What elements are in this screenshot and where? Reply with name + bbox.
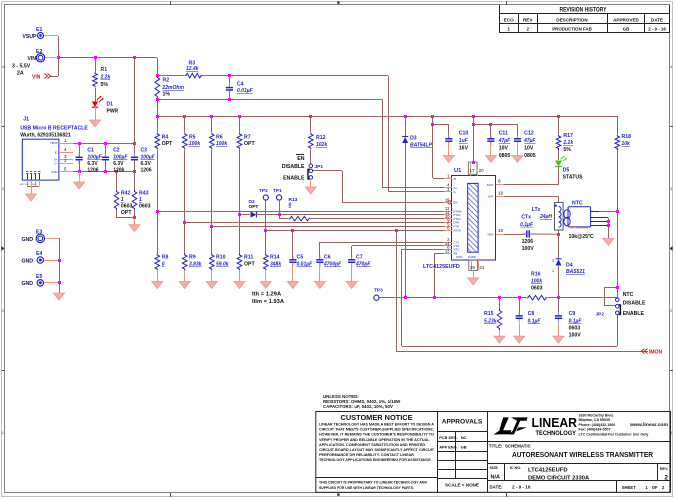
svg-text:2.2k: 2.2k xyxy=(562,140,573,146)
svg-text:E3: E3 xyxy=(36,229,42,235)
svg-text:ENABLE: ENABLE xyxy=(283,176,305,182)
svg-text:3: 3 xyxy=(2,187,4,191)
svg-text:VIN: VIN xyxy=(27,56,36,62)
svg-text:Milpitas, CA 95035: Milpitas, CA 95035 xyxy=(579,418,610,422)
svg-text:NTC: NTC xyxy=(623,292,634,298)
svg-text:R2: R2 xyxy=(163,78,170,84)
svg-text:16V: 16V xyxy=(459,146,469,152)
svg-text:GND: GND xyxy=(51,170,57,174)
svg-text:PWR: PWR xyxy=(107,109,119,115)
svg-text:DISABLE: DISABLE xyxy=(623,301,646,307)
svg-text:R10: R10 xyxy=(216,255,226,261)
svg-text:47µF: 47µF xyxy=(498,138,511,144)
svg-text:OF: OF xyxy=(652,485,658,490)
svg-text:NTC connected: NTC connected xyxy=(570,225,589,229)
svg-text:OPT: OPT xyxy=(244,141,255,147)
svg-text:1: 1 xyxy=(64,138,67,143)
svg-text:SCHEMATIC: SCHEMATIC xyxy=(505,443,532,448)
svg-text:GND GND ~ GND: GND GND ~ GND xyxy=(19,184,37,186)
svg-text:4: 4 xyxy=(64,147,67,152)
svg-text:1: 1 xyxy=(552,269,554,273)
svg-text:C7: C7 xyxy=(356,255,363,261)
svg-text:DAD: DAD xyxy=(488,232,494,236)
svg-text:R15: R15 xyxy=(484,311,494,317)
svg-text:18: 18 xyxy=(498,228,504,233)
svg-text:100µF: 100µF xyxy=(87,154,102,160)
svg-text:2: 2 xyxy=(2,309,4,313)
svg-text:Fax: (408)434-0507: Fax: (408)434-0507 xyxy=(579,428,611,432)
svg-text:GB: GB xyxy=(461,444,467,449)
svg-text:IMON: IMON xyxy=(454,229,461,233)
svg-text:TP1: TP1 xyxy=(273,188,282,194)
svg-text:1630 McCarthy Blvd.: 1630 McCarthy Blvd. xyxy=(579,413,614,417)
svg-text:21: 21 xyxy=(479,265,485,270)
svg-text:0.01µF: 0.01µF xyxy=(297,262,314,268)
svg-text:ID: ID xyxy=(55,151,58,155)
svg-text:16: 16 xyxy=(470,265,476,270)
svg-text:0.01µF: 0.01µF xyxy=(237,88,254,94)
svg-text:0603: 0603 xyxy=(139,204,151,210)
svg-text:102k: 102k xyxy=(316,142,327,148)
svg-text:0805: 0805 xyxy=(499,153,511,159)
svg-text:C1: C1 xyxy=(87,148,94,154)
svg-text:D1: D1 xyxy=(107,102,114,108)
svg-text:5%: 5% xyxy=(563,147,571,153)
svg-text:STAT: STAT xyxy=(487,183,494,187)
svg-text:REV: REV xyxy=(523,17,533,22)
svg-text:R5: R5 xyxy=(189,135,196,141)
svg-text:R12: R12 xyxy=(316,135,326,141)
svg-text:TP2: TP2 xyxy=(259,188,268,194)
svg-text:OPT: OPT xyxy=(162,141,173,147)
svg-text:U1: U1 xyxy=(454,168,462,174)
svg-text:E4: E4 xyxy=(36,251,42,257)
svg-text:R18: R18 xyxy=(622,134,632,140)
svg-text:LTC Confidential-For Customer: LTC Confidential-For Customer Use Only xyxy=(579,433,649,437)
svg-text:10V: 10V xyxy=(499,146,509,152)
svg-text:3 - 5.5V: 3 - 5.5V xyxy=(12,63,31,69)
svg-text:D-: D- xyxy=(55,161,58,165)
svg-text:R1: R1 xyxy=(101,67,108,73)
svg-text:R8: R8 xyxy=(162,255,169,261)
svg-text:R43: R43 xyxy=(139,191,149,197)
svg-text:USB Micro B RECEPTACLE: USB Micro B RECEPTACLE xyxy=(20,126,88,132)
svg-text:IN: IN xyxy=(454,177,457,181)
svg-text:G-: G- xyxy=(454,190,457,194)
svg-text:0.1µF: 0.1µF xyxy=(528,319,542,325)
svg-text:N/A: N/A xyxy=(491,475,501,481)
svg-text:LTC4125EUFD: LTC4125EUFD xyxy=(423,264,460,270)
svg-text:470pF: 470pF xyxy=(355,262,371,268)
svg-text:LTC4125EUFD: LTC4125EUFD xyxy=(528,468,568,474)
svg-text:D5: D5 xyxy=(563,168,570,174)
svg-text:TECHNOLOGY: TECHNOLOGY xyxy=(536,430,577,437)
svg-text:IMON: IMON xyxy=(649,349,662,355)
svg-text:0: 0 xyxy=(289,203,292,209)
svg-text:R42: R42 xyxy=(121,191,131,197)
svg-text:10k: 10k xyxy=(622,141,631,147)
svg-text:Ilim = 1.93A: Ilim = 1.93A xyxy=(252,299,285,305)
svg-text:R4: R4 xyxy=(162,135,169,141)
svg-text:CAPACITORS: uF, 0402, 10%, 50V: CAPACITORS: uF, 0402, 10%, 50V xyxy=(323,404,393,409)
svg-text:C8: C8 xyxy=(528,311,535,317)
svg-text:IC NO.: IC NO. xyxy=(510,466,522,470)
svg-text:2.2k: 2.2k xyxy=(100,75,111,81)
svg-text:E1: E1 xyxy=(36,27,42,33)
svg-text:13: 13 xyxy=(445,248,450,253)
svg-text:1: 1 xyxy=(139,197,142,203)
svg-text:24µH: 24µH xyxy=(539,214,552,220)
svg-text:R11: R11 xyxy=(244,255,253,261)
svg-text:J1: J1 xyxy=(23,117,29,123)
svg-text:EN: EN xyxy=(454,201,458,205)
svg-text:JP2: JP2 xyxy=(595,312,604,318)
svg-text:DISABLE: DISABLE xyxy=(282,164,305,170)
svg-text:0.1µF: 0.1µF xyxy=(569,319,583,325)
svg-text:GND: GND xyxy=(21,258,33,264)
svg-text:TP3: TP3 xyxy=(374,288,383,294)
svg-text:BAT54LP: BAT54LP xyxy=(410,143,433,149)
svg-text:APPROVED: APPROVED xyxy=(613,17,639,22)
svg-text:1206: 1206 xyxy=(87,168,98,174)
svg-text:C9: C9 xyxy=(569,311,576,317)
svg-text:Phone: (408)432-1900: Phone: (408)432-1900 xyxy=(579,423,616,427)
svg-text:1206: 1206 xyxy=(141,168,152,174)
svg-text:2A: 2A xyxy=(17,71,24,77)
svg-text:OPT: OPT xyxy=(121,210,132,216)
svg-text:59.0k: 59.0k xyxy=(216,262,229,268)
svg-text:Ith = 1.29A: Ith = 1.29A xyxy=(252,292,282,298)
svg-text:2 - 9 - 16: 2 - 9 - 16 xyxy=(512,485,531,490)
svg-text:6.3V: 6.3V xyxy=(87,161,98,167)
svg-text:C12: C12 xyxy=(524,131,534,137)
svg-text:C10: C10 xyxy=(459,131,469,137)
svg-text:100k: 100k xyxy=(216,141,227,147)
svg-text:100k: 100k xyxy=(189,141,200,147)
svg-text:OPT: OPT xyxy=(249,204,259,210)
svg-text:R16: R16 xyxy=(531,272,541,278)
svg-text:APP ENG.: APP ENG. xyxy=(439,444,458,449)
svg-text:1206: 1206 xyxy=(522,239,534,245)
svg-text:ENABLE: ENABLE xyxy=(623,311,645,317)
svg-text:19: 19 xyxy=(498,190,504,195)
svg-text:0.1µF: 0.1µF xyxy=(520,222,534,228)
svg-text:E5: E5 xyxy=(36,274,42,280)
svg-text:2 - 9 - 16: 2 - 9 - 16 xyxy=(648,27,666,32)
svg-text:100V: 100V xyxy=(522,246,535,252)
svg-text:C11: C11 xyxy=(499,131,508,137)
svg-text:0603: 0603 xyxy=(121,204,133,210)
svg-text:LTx: LTx xyxy=(532,207,541,213)
svg-text:348k: 348k xyxy=(270,262,281,268)
svg-text:4: 4 xyxy=(2,65,4,69)
svg-text:REVISION HISTORY: REVISION HISTORY xyxy=(560,7,607,13)
svg-text:1206: 1206 xyxy=(113,168,124,174)
svg-text:GND: GND xyxy=(21,281,33,287)
svg-text:R7: R7 xyxy=(244,135,251,141)
svg-text:AUTORESONANT WIRELESS TRANSMIT: AUTORESONANT WIRELESS TRANSMITTER xyxy=(512,450,654,459)
svg-text:5%: 5% xyxy=(101,82,109,88)
svg-text:NTC: NTC xyxy=(572,200,583,206)
svg-text:E2: E2 xyxy=(36,49,42,55)
svg-text:PGND: PGND xyxy=(468,255,476,259)
svg-text:4700pF: 4700pF xyxy=(323,262,342,268)
svg-text:6.3V: 6.3V xyxy=(113,161,124,167)
svg-text:BAS521: BAS521 xyxy=(566,269,585,275)
svg-text:OPT: OPT xyxy=(244,262,255,268)
svg-text:GND: GND xyxy=(456,255,462,259)
svg-text:VIN: VIN xyxy=(32,74,41,80)
svg-text:GB: GB xyxy=(623,27,630,32)
svg-text:GND: GND xyxy=(21,237,33,243)
svg-text:C2: C2 xyxy=(113,148,120,154)
svg-text:PRODUCTION FAB: PRODUCTION FAB xyxy=(552,27,592,32)
svg-text:3.83k: 3.83k xyxy=(189,262,202,268)
svg-text:8: 8 xyxy=(498,179,501,184)
svg-text:VSUP: VSUP xyxy=(22,34,37,40)
svg-text:0: 0 xyxy=(162,262,165,268)
svg-text:EN: EN xyxy=(297,156,304,162)
svg-text:47µF: 47µF xyxy=(523,138,536,144)
svg-text:2: 2 xyxy=(670,309,672,313)
svg-text:SCALE = NONE: SCALE = NONE xyxy=(445,483,479,488)
svg-text:17: 17 xyxy=(470,168,476,173)
svg-text:DAT: DAT xyxy=(488,195,494,199)
svg-text:R17: R17 xyxy=(563,133,573,139)
svg-text:THIS CIRCUIT IS PROPRIETARY TO: THIS CIRCUIT IS PROPRIETARY TO LINEAR TE… xyxy=(319,479,427,484)
svg-text:1: 1 xyxy=(121,197,124,203)
svg-text:STATUS: STATUS xyxy=(563,174,584,180)
svg-text:TECHNOLOGY APPLICATIONS ENGINE: TECHNOLOGY APPLICATIONS ENGINEERING FOR … xyxy=(319,457,432,462)
svg-text:100k: 100k xyxy=(531,279,542,285)
svg-text:0603: 0603 xyxy=(531,286,543,292)
svg-text:0805: 0805 xyxy=(524,153,536,159)
svg-text:1%: 1% xyxy=(163,92,171,98)
svg-text:www.linear.com: www.linear.com xyxy=(629,422,668,427)
svg-text:20: 20 xyxy=(479,168,485,173)
svg-text:DATE: DATE xyxy=(651,17,663,22)
svg-text:VBUS: VBUS xyxy=(50,141,58,145)
svg-text:4: 4 xyxy=(670,65,672,69)
svg-text:2: 2 xyxy=(552,259,554,263)
svg-text:6.3V: 6.3V xyxy=(141,161,152,167)
svg-text:JP1: JP1 xyxy=(315,164,324,170)
svg-text:100µF: 100µF xyxy=(141,154,156,160)
svg-text:C3: C3 xyxy=(141,148,148,154)
svg-text:SIZE: SIZE xyxy=(490,466,499,470)
svg-text:D3: D3 xyxy=(410,136,417,142)
svg-text:C6: C6 xyxy=(324,255,331,261)
svg-text:100V: 100V xyxy=(569,333,582,339)
svg-text:5.23k: 5.23k xyxy=(484,319,497,325)
svg-text:R6: R6 xyxy=(216,135,223,141)
svg-text:APPROVALS: APPROVALS xyxy=(442,419,483,426)
svg-text:10V: 10V xyxy=(524,146,534,152)
svg-text:1: 1 xyxy=(2,431,4,435)
svg-text:NC: NC xyxy=(461,435,467,440)
svg-text:10k@25°C: 10k@25°C xyxy=(569,234,595,240)
svg-text:15: 15 xyxy=(445,198,450,203)
svg-text:LINEAR: LINEAR xyxy=(532,415,578,430)
svg-text:R14: R14 xyxy=(270,255,280,261)
svg-text:2: 2 xyxy=(64,158,67,163)
svg-text:ECO: ECO xyxy=(504,17,514,22)
svg-text:DATE:: DATE: xyxy=(490,485,504,490)
svg-text:R9: R9 xyxy=(189,255,196,261)
svg-text:3: 3 xyxy=(670,187,672,191)
svg-text:12.4k: 12.4k xyxy=(186,66,199,72)
svg-text:CTx: CTx xyxy=(521,215,531,221)
svg-text:PCB DES.: PCB DES. xyxy=(439,435,457,440)
svg-text:0603: 0603 xyxy=(569,326,581,332)
svg-text:22mOhm: 22mOhm xyxy=(162,85,185,91)
svg-text:TITLE:: TITLE: xyxy=(489,443,503,448)
svg-text:SHEET: SHEET xyxy=(622,485,636,490)
svg-text:C4: C4 xyxy=(237,82,244,88)
svg-text:DESCRIPTION: DESCRIPTION xyxy=(556,17,588,22)
svg-text:D4: D4 xyxy=(566,263,573,269)
svg-text:SUPPLIED FOR USE WITH LINEAR T: SUPPLIED FOR USE WITH LINEAR TECHNOLOGY … xyxy=(319,485,414,490)
svg-text:REV.: REV. xyxy=(660,467,669,471)
svg-text:100µF: 100µF xyxy=(113,154,128,160)
svg-text:C5: C5 xyxy=(297,255,304,261)
svg-text:1uF: 1uF xyxy=(459,138,469,144)
svg-text:5: 5 xyxy=(64,167,67,172)
